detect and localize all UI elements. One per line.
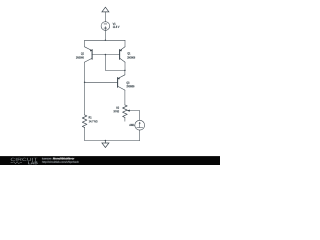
wire R1 to bottom rail bbox=[84, 127, 86, 140]
label Q3 name: Q3 bbox=[127, 82, 130, 85]
R2 wiper arrow bbox=[127, 110, 130, 112]
node bases junction bbox=[105, 54, 107, 56]
node top rail junction bbox=[105, 40, 107, 42]
bottom rail wire bbox=[85, 140, 140, 142]
resistor R1 bbox=[82, 115, 87, 128]
potentiometer R2 bbox=[123, 105, 128, 118]
transistor Q1 bbox=[120, 40, 125, 62]
top rail wire bbox=[85, 39, 125, 41]
label R1 value: 14.7 kΩ bbox=[89, 120, 98, 122]
wire V1 to top rail bbox=[104, 30, 106, 40]
wire Q2 collector down to R1 bbox=[84, 62, 86, 115]
logo CircuitLab wordmark bbox=[11, 158, 38, 164]
ammeter AM1 bbox=[135, 120, 145, 130]
label Q2 value: 2N3906 bbox=[76, 56, 84, 58]
label Q2 name: Q2 bbox=[81, 52, 84, 55]
node Q2 collector / Q3 base junction bbox=[84, 82, 86, 84]
logo resistor squiggle bbox=[11, 162, 22, 164]
transistor Q2 bbox=[85, 40, 93, 62]
label Q3 value: 2N3906 bbox=[127, 85, 135, 87]
R2 bottom stub bbox=[124, 117, 126, 121]
label R2 value: 10 kΩ bbox=[114, 110, 119, 112]
transistor Q3 bbox=[118, 70, 125, 90]
ground bbox=[102, 141, 109, 148]
label Q1 value: 2N3906 bbox=[127, 56, 135, 58]
label Q1 name: Q1 bbox=[128, 52, 131, 55]
wire flag to V1 bbox=[104, 12, 106, 22]
footer bar bbox=[0, 156, 220, 165]
node Q1 collector / Q3 emitter junction bbox=[124, 70, 126, 72]
wire Q3 collector down to R2 bbox=[124, 90, 126, 105]
node ground junction bbox=[105, 140, 107, 142]
label AM1 name: AM1 bbox=[129, 124, 134, 126]
label R1 name: R1 bbox=[89, 116, 92, 118]
wire bases to Q3 emitter bbox=[105, 55, 125, 71]
wire Q3 base to left column bbox=[85, 81, 118, 83]
wire Q1 collector down bbox=[124, 62, 126, 70]
labels bbox=[76, 23, 135, 126]
wire wiper to ammeter bbox=[129, 111, 140, 121]
footer credit text bbox=[42, 157, 79, 163]
wire ammeter to bottom rail bbox=[139, 130, 141, 140]
wire common bases bbox=[92, 54, 120, 56]
label R2 name: R2 bbox=[116, 107, 119, 109]
label V1 name: V1 bbox=[113, 23, 116, 25]
power flag V+ arrow bbox=[102, 7, 109, 12]
label V1 value: 11.8 V bbox=[113, 26, 120, 28]
voltage source V1 bbox=[101, 22, 110, 31]
